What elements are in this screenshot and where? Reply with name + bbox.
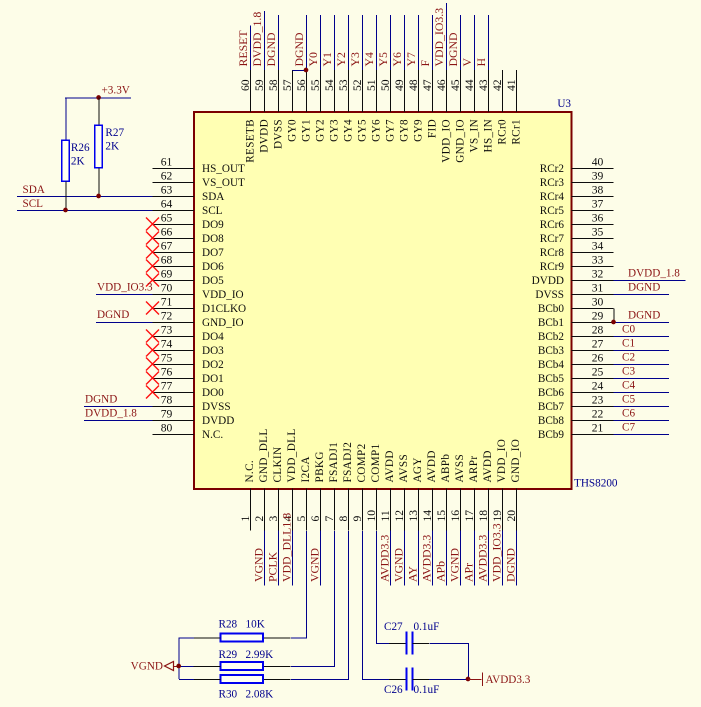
svg-text:AVSS: AVSS: [398, 454, 410, 483]
pin 12 AVSS (bottom): [393, 454, 410, 531]
svg-text:38: 38: [592, 184, 604, 197]
svg-text:58: 58: [267, 79, 280, 91]
svg-text:D1CLKO: D1CLKO: [202, 303, 246, 315]
svg-text:C7: C7: [622, 422, 635, 434]
pin 26 BCb4 (right): [538, 352, 614, 372]
net label DGND (pin 20): [504, 547, 518, 582]
pin 29 BCb1 (right): [538, 310, 614, 330]
pin 53 GY4 (top): [337, 70, 355, 142]
wire net VDD_IO3.3 at pin 19 (bottom): [502, 531, 504, 586]
wire net APb at pin 15 (bottom): [446, 531, 448, 586]
svg-text:53: 53: [337, 79, 350, 91]
svg-text:57: 57: [281, 79, 294, 91]
svg-text:R29: R29: [219, 649, 238, 661]
svg-text:16: 16: [449, 510, 462, 522]
svg-text:2K: 2K: [105, 141, 119, 153]
svg-text:26: 26: [592, 352, 604, 365]
pin 33 RCr9 (right): [540, 254, 614, 274]
wire net C5 pin 23: [614, 406, 670, 408]
net label Y3 (pin 52): [348, 52, 362, 67]
svg-text:11: 11: [379, 510, 392, 521]
svg-text:Y0: Y0: [306, 52, 320, 67]
svg-text:DVDD_1.8: DVDD_1.8: [250, 12, 264, 67]
pin 7 FSADJ1 (bottom): [323, 442, 340, 531]
pin 51 GY6 (top): [365, 70, 383, 142]
svg-text:AVDD3.3: AVDD3.3: [378, 535, 392, 582]
svg-text:42: 42: [491, 79, 504, 91]
pin 65 DO9 (left): [146, 212, 224, 232]
pin 1 N.C. (bottom): [239, 460, 256, 531]
pin 60 RESETB (top): [239, 70, 257, 163]
svg-text:DO5: DO5: [202, 275, 224, 287]
svg-text:AY: AY: [406, 566, 420, 582]
svg-text:62: 62: [161, 170, 173, 183]
svg-text:GND_DLL: GND_DLL: [258, 428, 270, 482]
wire net C6 pin 22: [614, 420, 670, 422]
junction +3.3V / R27: [96, 95, 101, 100]
capacitor C27 0.1uF: [384, 621, 439, 655]
svg-text:BCb3: BCb3: [538, 345, 565, 357]
svg-text:50: 50: [379, 79, 392, 91]
svg-text:Y6: Y6: [390, 52, 404, 67]
svg-text:AVDD3.3: AVDD3.3: [420, 535, 434, 582]
svg-text:DGND: DGND: [446, 32, 460, 67]
net label DGND (pin 78): [85, 394, 117, 406]
net label Y1 (pin 54): [320, 52, 334, 67]
junction R26 / SCL: [63, 208, 68, 213]
svg-text:DGND: DGND: [628, 310, 660, 322]
net label VDD_IO3.3 (pin 46): [432, 8, 446, 67]
svg-text:46: 46: [435, 79, 448, 91]
svg-text:SDA: SDA: [202, 191, 224, 203]
svg-text:BCb4: BCb4: [538, 359, 565, 371]
power port AVDD3.3: [468, 673, 531, 687]
svg-text:AVDD3.3: AVDD3.3: [486, 674, 531, 686]
net label DVDD_1.8: [628, 268, 680, 280]
svg-text:20: 20: [505, 510, 518, 522]
svg-text:DO7: DO7: [202, 247, 224, 259]
net label VGND (pin 6): [308, 547, 322, 582]
svg-text:AVDD: AVDD: [426, 450, 438, 482]
svg-text:79: 79: [161, 408, 173, 421]
svg-text:48: 48: [407, 79, 420, 91]
svg-text:40: 40: [592, 156, 604, 169]
net label AVDD3.3 (pin 14): [420, 535, 434, 582]
svg-text:56: 56: [295, 79, 308, 91]
svg-text:DVSS: DVSS: [202, 401, 231, 413]
svg-text:0.1uF: 0.1uF: [414, 684, 440, 696]
svg-text:Y1: Y1: [320, 52, 334, 67]
designator U3: [557, 98, 571, 110]
wire net DGND pin 78: [84, 406, 153, 408]
svg-text:GY4: GY4: [343, 119, 355, 142]
svg-text:VDD_IO3.3: VDD_IO3.3: [97, 282, 153, 294]
svg-text:0.1uF: 0.1uF: [414, 621, 440, 633]
svg-text:GY5: GY5: [357, 119, 369, 142]
net label DGND (pin 58): [264, 32, 278, 67]
svg-text:51: 51: [365, 79, 378, 91]
wire net VGND at pin 12 (bottom): [404, 531, 406, 586]
net label SCL: [23, 198, 44, 210]
svg-text:THS8200: THS8200: [574, 478, 618, 490]
svg-text:28: 28: [592, 324, 604, 337]
svg-text:10: 10: [365, 510, 378, 522]
svg-text:ARPr: ARPr: [468, 456, 480, 483]
pin 31 DVSS (right): [535, 282, 613, 302]
svg-text:APr: APr: [462, 563, 476, 582]
pin 64 SCL (left): [153, 198, 223, 218]
pin 62 VS_OUT (left): [153, 170, 246, 190]
svg-text:2: 2: [253, 516, 266, 522]
pin 5 I2CA (bottom): [295, 456, 312, 530]
net label Y5 (pin 50): [376, 52, 390, 67]
svg-text:72: 72: [161, 310, 173, 323]
svg-text:52: 52: [351, 79, 364, 91]
svg-text:65: 65: [161, 212, 173, 225]
svg-text:24: 24: [592, 380, 604, 393]
svg-text:SCL: SCL: [23, 198, 44, 210]
pin 30 BCb0 (right): [538, 296, 614, 316]
svg-text:78: 78: [161, 394, 173, 407]
svg-text:FSADJ2: FSADJ2: [342, 442, 354, 483]
svg-text:GY6: GY6: [371, 119, 383, 142]
net label AVDD3.3 (pin 18): [476, 535, 490, 582]
wire net C7 pin 21: [614, 434, 670, 436]
svg-text:DVDD: DVDD: [532, 275, 564, 287]
svg-text:37: 37: [592, 198, 604, 211]
svg-text:VGND: VGND: [131, 661, 163, 673]
wire net C2 pin 26: [614, 364, 670, 366]
svg-text:RESETB: RESETB: [245, 119, 257, 163]
pin 49 GY8 (top): [393, 70, 411, 142]
svg-text:47: 47: [421, 79, 434, 91]
svg-text:31: 31: [592, 282, 604, 295]
power +3.3V bar: [65, 85, 131, 99]
svg-text:2.08K: 2.08K: [246, 689, 274, 701]
svg-text:BCb9: BCb9: [538, 429, 565, 441]
svg-text:R27: R27: [105, 127, 124, 139]
net label VDD_IO3.3 (pin 70): [97, 282, 153, 294]
svg-text:RCr1: RCr1: [511, 119, 523, 145]
svg-text:VDD_IO3.3: VDD_IO3.3: [432, 8, 446, 67]
pin 23 BCb7 (right): [538, 394, 614, 414]
svg-text:C5: C5: [622, 394, 635, 406]
pin 21 BCb9 (right): [538, 422, 614, 442]
pin 13 AGY (bottom): [407, 457, 424, 530]
net label VDD_DLL1.8 (pin 4): [280, 513, 294, 582]
svg-text:COMP1: COMP1: [370, 443, 382, 482]
pin 45 GND_IO (top): [449, 70, 467, 163]
resistor R28 10K: [194, 618, 291, 641]
svg-text:1: 1: [239, 516, 252, 522]
svg-text:6: 6: [309, 516, 322, 522]
pin 74 DO3 (left): [146, 338, 224, 358]
wire net F at pin 47 (top): [432, 15, 434, 70]
svg-text:30: 30: [592, 296, 604, 309]
pin 42 RCr0 (top): [491, 70, 509, 145]
net label C5: [622, 394, 635, 406]
svg-text:DO3: DO3: [202, 345, 224, 357]
wire net DVDD_1.8 pin 32: [614, 280, 686, 282]
wire net DGND pin 29: [614, 322, 670, 324]
svg-text:2K: 2K: [71, 156, 85, 168]
pin 59 DVDD (top): [253, 70, 271, 153]
pin 34 RCr8 (right): [540, 240, 614, 260]
svg-text:71: 71: [161, 296, 173, 309]
svg-text:VDD_DLL1.8: VDD_DLL1.8: [280, 513, 294, 582]
wire net C3 pin 25: [614, 378, 670, 380]
svg-text:BCb2: BCb2: [538, 331, 564, 343]
net label DGND (pin 72): [97, 309, 129, 321]
pin 63 SDA (left): [153, 184, 225, 204]
pin 35 RCr7 (right): [540, 226, 614, 246]
svg-text:60: 60: [239, 79, 252, 91]
svg-text:8: 8: [337, 516, 350, 522]
wire jog pin 57 to pin 56 DGND net: [293, 70, 307, 72]
pin 57 GY0 (top): [281, 70, 299, 142]
svg-text:DGND: DGND: [504, 547, 518, 582]
svg-text:3: 3: [267, 516, 280, 522]
svg-text:BCb8: BCb8: [538, 415, 565, 427]
pin 28 BCb2 (right): [538, 324, 614, 344]
net label PCLK (pin 3): [266, 551, 280, 582]
svg-text:HS_OUT: HS_OUT: [202, 163, 245, 175]
pin 67 DO7 (left): [146, 240, 224, 260]
wire net Y0 at pin 55 (top): [320, 15, 322, 70]
svg-text:61: 61: [161, 156, 173, 169]
value label THS8200: [574, 478, 618, 490]
svg-text:Y2: Y2: [334, 52, 348, 67]
svg-text:GND_IO: GND_IO: [510, 439, 522, 483]
svg-text:19: 19: [491, 510, 504, 522]
svg-text:AVDD: AVDD: [384, 450, 396, 482]
svg-text:+3.3V: +3.3V: [102, 85, 130, 97]
svg-text:VGND: VGND: [392, 547, 406, 582]
svg-text:64: 64: [161, 198, 173, 211]
svg-text:AVDD3.3: AVDD3.3: [476, 535, 490, 582]
svg-text:C6: C6: [622, 408, 635, 420]
pin 77 DO0 (left): [146, 380, 224, 400]
junction VGND node: [176, 664, 181, 669]
pin 66 DO8 (left): [146, 226, 224, 246]
svg-text:C27: C27: [384, 621, 403, 633]
svg-text:68: 68: [161, 254, 173, 267]
pin 19 VDD_IO (bottom): [491, 439, 508, 531]
net label C3: [622, 366, 635, 378]
svg-text:R30: R30: [219, 689, 238, 701]
svg-text:70: 70: [161, 282, 173, 295]
svg-text:59: 59: [253, 79, 266, 91]
svg-text:U3: U3: [557, 98, 571, 110]
net label Y2 (pin 53): [334, 52, 348, 67]
svg-text:DVDD_1.8: DVDD_1.8: [85, 408, 137, 420]
wire pin 9 down to C26: [363, 531, 390, 680]
pin 41 RCr1 (top): [505, 70, 523, 145]
svg-text:GY0: GY0: [287, 119, 299, 142]
svg-text:DO2: DO2: [202, 359, 224, 371]
IC U3 THS8200 chip body: [194, 112, 572, 489]
pin 36 RCr6 (right): [540, 212, 614, 232]
svg-text:DO6: DO6: [202, 261, 224, 273]
wire net Y2 at pin 53 (top): [348, 15, 350, 70]
svg-text:SDA: SDA: [23, 184, 45, 196]
svg-text:25: 25: [592, 366, 604, 379]
svg-text:RCr9: RCr9: [540, 261, 565, 273]
svg-text:HS_IN: HS_IN: [483, 119, 495, 152]
svg-text:APb: APb: [434, 561, 448, 582]
svg-text:DVSS: DVSS: [535, 289, 564, 301]
pin 72 GND_IO (left): [153, 310, 244, 330]
svg-text:5: 5: [295, 516, 308, 522]
svg-text:DO0: DO0: [202, 387, 224, 399]
svg-text:RCr6: RCr6: [540, 219, 565, 231]
svg-text:FID: FID: [427, 119, 439, 138]
svg-text:C1: C1: [622, 338, 635, 350]
wire net AVDD3.3 at pin 11 (bottom): [390, 531, 392, 586]
svg-text:BCb6: BCb6: [538, 387, 565, 399]
wire pin 10 down to C27: [377, 531, 390, 644]
wire net VDD_IO3.3 at pin 46 (top): [446, 3, 448, 70]
wire net DGND pin 31: [614, 294, 670, 296]
svg-text:76: 76: [161, 366, 173, 379]
net label RESET (pin 60): [236, 30, 250, 67]
svg-text:33: 33: [592, 254, 604, 267]
net label Y0 (pin 55): [306, 52, 320, 67]
svg-text:32: 32: [592, 268, 604, 281]
net label VGND (pin 16): [448, 547, 462, 582]
wire net Y7 at pin 48 (top): [418, 15, 420, 70]
svg-text:Y4: Y4: [362, 52, 376, 67]
wire net DGND at pin 45 (top): [460, 15, 462, 70]
svg-text:COMP2: COMP2: [356, 443, 368, 482]
svg-text:V: V: [460, 58, 474, 67]
svg-text:18: 18: [477, 510, 490, 522]
pin 14 AVDD (bottom): [421, 450, 438, 530]
wire pin 5 down to R28: [291, 531, 307, 638]
svg-text:41: 41: [505, 79, 518, 91]
net label DVDD_1.8 (pin 59): [250, 12, 264, 67]
wire net VDD_IO3.3 pin 70: [96, 294, 153, 296]
svg-text:DGND: DGND: [264, 32, 278, 67]
svg-text:RCr3: RCr3: [540, 177, 565, 189]
svg-text:15: 15: [435, 510, 448, 522]
svg-text:RESET: RESET: [236, 30, 250, 67]
svg-text:54: 54: [323, 79, 336, 91]
svg-text:77: 77: [161, 380, 173, 393]
junction at pin 56 top: [304, 68, 309, 73]
junction R27 / SDA: [96, 194, 101, 199]
pin 40 RCr2 (right): [540, 156, 614, 176]
pin 38 RCr4 (right): [540, 184, 614, 204]
svg-text:21: 21: [592, 422, 604, 435]
net label SDA: [23, 184, 45, 196]
wire net VDD_DLL1.8 at pin 4 (bottom): [292, 531, 294, 586]
wire net SCL: [17, 210, 153, 212]
wire C26 right to AVDD3.3 node: [429, 679, 468, 681]
net label Y7 (pin 48): [404, 52, 418, 67]
svg-text:F: F: [418, 60, 432, 67]
net label AVDD3.3 (pin 11): [378, 535, 392, 582]
pin 58 DVSS (top): [267, 70, 285, 149]
pin 55 GY2 (top): [309, 70, 327, 142]
svg-text:RCr0: RCr0: [497, 119, 509, 145]
wire VGND bus vertical: [179, 638, 194, 680]
junction pin 29/30: [611, 320, 616, 325]
svg-text:DVDD_1.8: DVDD_1.8: [628, 268, 680, 280]
pin 70 VDD_IO (left): [153, 282, 244, 302]
junction AVDD3.3 node: [466, 677, 471, 682]
svg-text:27: 27: [592, 338, 604, 351]
pin 54 GY3 (top): [323, 70, 341, 142]
pin 27 BCb3 (right): [538, 338, 614, 358]
svg-text:DGND: DGND: [85, 394, 117, 406]
pin 44 VS_IN (top): [463, 70, 481, 152]
wire net AVDD3.3 at pin 14 (bottom): [432, 531, 434, 586]
pin 3 CLKIN (bottom): [267, 447, 284, 531]
svg-text:GY7: GY7: [385, 119, 397, 142]
wire net DVDD_1.8 pin 79: [84, 420, 153, 422]
svg-text:DO8: DO8: [202, 233, 224, 245]
wire net Y4 at pin 51 (top): [376, 15, 378, 70]
svg-text:AVSS: AVSS: [454, 454, 466, 483]
svg-text:ABPb: ABPb: [440, 454, 452, 483]
svg-text:PCLK: PCLK: [266, 551, 280, 582]
svg-text:GY1: GY1: [301, 119, 313, 142]
pin 10 COMP1 (bottom): [365, 443, 382, 530]
pin 71 D1CLKO (left): [146, 296, 246, 316]
pin 37 RCr5 (right): [540, 198, 614, 218]
svg-text:Y5: Y5: [376, 52, 390, 67]
svg-text:34: 34: [592, 240, 604, 253]
svg-text:49: 49: [393, 79, 406, 91]
wire net VGND at pin 16 (bottom): [460, 531, 462, 586]
svg-text:66: 66: [161, 226, 173, 239]
wire net VGND at pin 6 (bottom): [320, 531, 322, 586]
pin 4 VDD_DLL (bottom): [281, 428, 298, 530]
power port VGND: [131, 661, 179, 673]
svg-text:BCb1: BCb1: [538, 317, 564, 329]
pin 61 HS_OUT (left): [153, 156, 246, 176]
pin 15 ABPb (bottom): [435, 454, 452, 531]
svg-text:C4: C4: [622, 380, 635, 392]
svg-text:29: 29: [592, 310, 604, 323]
svg-text:VDD_DLL: VDD_DLL: [286, 428, 298, 482]
svg-text:VDD_IO: VDD_IO: [441, 119, 453, 163]
svg-text:BCb7: BCb7: [538, 401, 565, 413]
net label VDD_IO3.3 (pin 19): [490, 523, 504, 582]
wire net H at pin 43 (top): [488, 15, 490, 70]
svg-text:C0: C0: [622, 324, 635, 336]
wire net DVDD_1.8 at pin 59 (top): [264, 11, 266, 70]
pin 25 BCb5 (right): [538, 366, 614, 386]
pin 46 VDD_IO (top): [435, 70, 453, 163]
wire net VGND at pin 2 (bottom): [264, 531, 266, 586]
svg-text:43: 43: [477, 79, 490, 91]
pin 69 DO5 (left): [146, 268, 224, 288]
pin 75 DO2 (left): [146, 352, 224, 372]
pin 8 FSADJ2 (bottom): [337, 442, 354, 531]
svg-text:VS_IN: VS_IN: [469, 119, 481, 152]
wire net Y3 at pin 52 (top): [362, 15, 364, 70]
wire net PCLK at pin 3 (bottom): [278, 531, 280, 586]
pin 20 GND_IO (bottom): [505, 439, 522, 531]
pin 11 AVDD (bottom): [379, 450, 396, 530]
svg-text:VGND: VGND: [308, 547, 322, 582]
svg-text:FSADJ1: FSADJ1: [328, 442, 340, 483]
net label VGND (pin 12): [392, 547, 406, 582]
pin 22 BCb8 (right): [538, 408, 614, 428]
svg-text:GY2: GY2: [315, 119, 327, 142]
